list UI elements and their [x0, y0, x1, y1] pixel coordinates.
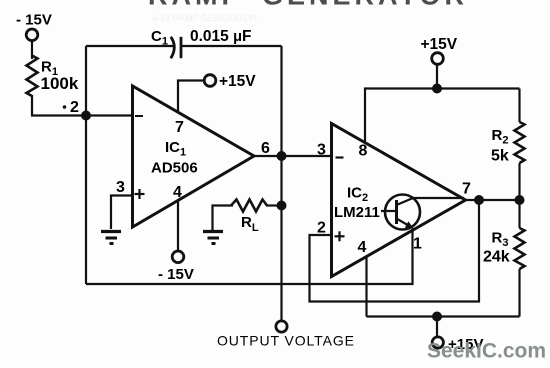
svg-text:- 15V: - 15V [158, 266, 194, 283]
plus input IC1 [135, 193, 145, 195]
svg-text:3: 3 [116, 179, 125, 196]
svg-text:+15V: +15V [219, 73, 256, 90]
comparator IC2 LM211 [332, 124, 466, 277]
terminal -15V IC1 pin4 [172, 251, 184, 263]
junction IC1 out [277, 151, 287, 161]
junction RL node [277, 201, 287, 211]
transistor Q1 emitter [397, 219, 412, 228]
svg-text:SeekIC.com: SeekIC.com [427, 340, 546, 363]
minus input IC2 [336, 156, 344, 158]
wire pin3 to ground [111, 196, 133, 230]
resistor R2 5k [518, 89, 520, 123]
transistor Q1 base bar [395, 200, 398, 224]
transistor Q1 collector [397, 198, 465, 205]
svg-text:6: 6 [261, 140, 270, 157]
svg-text:7: 7 [462, 181, 471, 198]
svg-text:8: 8 [359, 143, 368, 160]
terminal +15V top right [432, 53, 444, 65]
terminal +15V IC1 [204, 75, 216, 87]
svg-text:RAMP: RAMP [148, 0, 244, 11]
svg-text:R3: R3 [492, 230, 509, 250]
svg-text:100k: 100k [41, 74, 79, 93]
svg-text:IC2: IC2 [347, 185, 368, 205]
emitter arrowhead [405, 221, 414, 229]
wire R1 to node 2 [32, 95, 86, 116]
wire node 2 to IC1 inverting input [86, 114, 133, 116]
svg-text:0.015 μF: 0.015 μF [190, 28, 251, 45]
resistor R1 100k [27, 56, 38, 97]
svg-text:1: 1 [413, 236, 422, 253]
terminal -15V top-left [26, 29, 38, 41]
svg-text:RL: RL [241, 214, 259, 234]
svg-text:+15V: +15V [421, 36, 458, 53]
wire terminal to R1 [31, 41, 33, 59]
svg-text:7: 7 [175, 119, 184, 136]
plus input IC2 [335, 235, 345, 237]
wire RL to output node [266, 204, 282, 206]
terminal +15V bottom [432, 337, 443, 348]
svg-text:GENERATOR: GENERATOR [262, 0, 468, 11]
node 2 dot mark [63, 105, 67, 109]
minus input IC1 [135, 115, 143, 117]
junction +15V top [432, 84, 442, 94]
wire left feedback vertical [85, 46, 87, 284]
wire +15V drop [436, 64, 438, 89]
svg-text:OUTPUT VOLTAGE: OUTPUT VOLTAGE [217, 333, 355, 349]
wire pin2 loop [310, 200, 480, 302]
wire top to C1 [86, 45, 176, 47]
node 2 junction [81, 111, 91, 121]
svg-text:24k: 24k [483, 249, 510, 266]
terminal output voltage [276, 321, 287, 332]
junction pin7 [474, 195, 484, 205]
op-amp IC1 AD506 [133, 86, 255, 227]
wire output vertical [280, 46, 282, 321]
wire pin4 down [365, 257, 367, 317]
transistor Q1 circle [385, 195, 420, 230]
svg-text:2: 2 [70, 99, 79, 116]
transistor Q1 base lead (LM211 dash) [381, 210, 397, 212]
wire pin4 to -15V [177, 201, 179, 252]
wire bottom +15V rail [367, 315, 520, 317]
wire ground to RL [213, 206, 234, 231]
svg-text:AD506: AD506 [151, 160, 198, 177]
svg-text:4-43 RAMP GENERATOR: 4-43 RAMP GENERATOR [152, 13, 258, 23]
capacitor C1 [171, 37, 175, 58]
svg-text:4: 4 [173, 184, 182, 201]
wire IC1 out to IC2 in [254, 155, 332, 157]
svg-text:C1: C1 [151, 28, 168, 48]
resistor RL [231, 200, 267, 212]
ground for RL [203, 230, 223, 233]
svg-text:4: 4 [358, 239, 367, 256]
ground IC1 pin3 [101, 230, 121, 233]
svg-text:- 15V: - 15V [16, 12, 52, 29]
svg-text:R2: R2 [492, 127, 509, 147]
resistor R3 24k [518, 200, 520, 228]
wire pin7 to divider [466, 199, 520, 201]
wire pin8 up and across [365, 89, 520, 143]
wire C1 to right vertical [181, 45, 282, 47]
wire +15V bottom drop [436, 317, 438, 338]
svg-text:5k: 5k [491, 148, 509, 165]
wire pin7 to +15V [178, 81, 205, 113]
wire bottom feedback [86, 230, 413, 285]
svg-text:LM211: LM211 [334, 204, 380, 221]
svg-text:3: 3 [317, 142, 326, 159]
svg-text:2: 2 [317, 220, 326, 237]
junction +15V bottom [432, 312, 442, 322]
junction divider [515, 195, 525, 205]
